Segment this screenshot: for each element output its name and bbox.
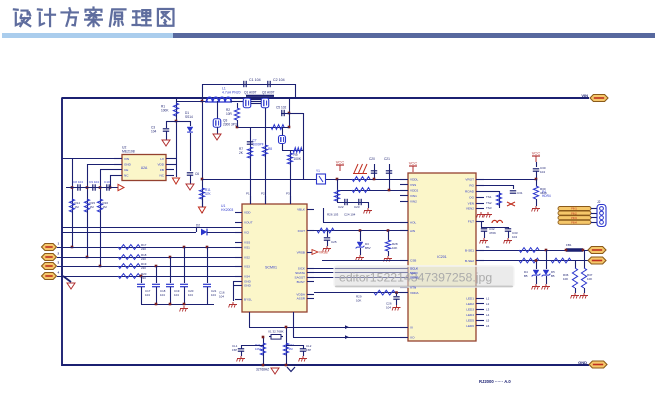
resistor R23 on bus xyxy=(352,177,370,182)
capacitor CL2 xyxy=(300,348,306,350)
svg-text:1M: 1M xyxy=(75,205,80,209)
svg-text:R37: R37 xyxy=(587,273,593,277)
svg-text:C18: C18 xyxy=(160,289,166,293)
wire CL1 link xyxy=(241,345,263,347)
svg-text:D1: D1 xyxy=(185,111,189,115)
svg-text:R2: R2 xyxy=(226,108,230,112)
wire R2 to junction xyxy=(237,120,239,127)
svg-text:C5 102: C5 102 xyxy=(276,106,287,110)
svg-text:VSS: VSS xyxy=(410,183,416,187)
svg-text:100K: 100K xyxy=(294,157,302,161)
wire capbank stem x156 xyxy=(156,287,158,304)
svg-text:104: 104 xyxy=(386,306,391,310)
labels right of U3 LED pins xyxy=(486,296,490,300)
svg-text:SDATA: SDATA xyxy=(295,271,306,275)
wire capbank drop x156 xyxy=(156,266,158,283)
resistor R22 xyxy=(283,343,288,355)
svg-text:LED3: LED3 xyxy=(466,307,474,311)
svg-text:4.7uH PN20: 4.7uH PN20 xyxy=(222,91,241,95)
wire x202 tail xyxy=(202,199,204,207)
svg-text:VBLK: VBLK xyxy=(297,207,306,211)
red hatch marker xyxy=(354,164,358,173)
label Q1 xyxy=(244,90,257,94)
wire zener drop 546 xyxy=(546,250,548,269)
svg-text:C20: C20 xyxy=(369,157,375,161)
svg-text:470K: 470K xyxy=(489,231,496,235)
svg-text:10M: 10M xyxy=(255,347,261,351)
svg-text:R9: R9 xyxy=(294,153,298,157)
wire FILT stub xyxy=(481,221,483,227)
ground below C3 xyxy=(162,140,170,146)
svg-text:104: 104 xyxy=(219,295,224,299)
svg-text:R26 103: R26 103 xyxy=(327,213,339,217)
svg-text:U1: U1 xyxy=(221,204,225,208)
port arrow right of cap row xyxy=(118,184,124,190)
svg-text:LED4: LED4 xyxy=(466,313,474,317)
ground below D5 xyxy=(545,284,547,287)
svg-text:32768HZ: 32768HZ xyxy=(256,368,269,372)
connector J1 pin2 xyxy=(42,254,57,261)
svg-text:R7: R7 xyxy=(239,147,243,151)
U2 center label xyxy=(141,166,148,170)
watermark box xyxy=(334,266,514,287)
svg-text:C21: C21 xyxy=(384,157,390,161)
wire switch-node down xyxy=(217,101,219,119)
svg-text:2300 3P3: 2300 3P3 xyxy=(223,123,237,127)
svg-text:104: 104 xyxy=(540,170,545,174)
resistor R18 row2 xyxy=(118,255,140,260)
svg-text:CL2: CL2 xyxy=(306,344,312,348)
svg-text:L5: L5 xyxy=(486,318,490,322)
svg-text:VSS: VSS xyxy=(244,240,250,244)
capacitor C25 xyxy=(324,237,330,239)
svg-text:R1: R1 xyxy=(161,105,165,109)
svg-text:C8 104: C8 104 xyxy=(73,180,83,184)
capacitor C32 xyxy=(481,228,487,230)
resistor R4 on y127 xyxy=(271,125,284,130)
svg-text:CE: CE xyxy=(124,168,128,172)
label U1 refdes xyxy=(221,204,225,208)
resistor R30 xyxy=(533,186,538,199)
svg-text:D4: D4 xyxy=(524,270,528,274)
resistor R1 xyxy=(173,103,178,116)
svg-text:FILT: FILT xyxy=(468,219,474,223)
connector P6 xyxy=(588,257,606,264)
wire zener tail xyxy=(360,248,362,255)
resistor R21 xyxy=(260,343,265,355)
svg-text:1M: 1M xyxy=(90,205,95,209)
svg-text:C30: C30 xyxy=(540,166,546,170)
wire C26 drop xyxy=(396,293,398,296)
svg-text:SENB: SENB xyxy=(410,275,418,279)
U3 pin labels over watermark xyxy=(410,266,419,270)
svg-text:C2 104: C2 104 xyxy=(273,78,285,82)
svg-text:LED5: LED5 xyxy=(466,318,474,322)
wire U1 xtal pin2 xyxy=(293,337,408,339)
capacitor C26 xyxy=(393,296,399,298)
node dots on rows xyxy=(71,246,74,249)
svg-text:HDR4: HDR4 xyxy=(542,194,551,198)
svg-text:R17: R17 xyxy=(141,243,147,247)
capacitor C30 xyxy=(533,168,539,170)
svg-text:C33: C33 xyxy=(512,231,518,235)
op-amp U2 body xyxy=(122,155,166,181)
resistor R24 on bus2 xyxy=(352,188,370,193)
resistor R16 on x100 xyxy=(97,199,102,212)
ground below C33 xyxy=(507,238,509,241)
resistor R36 xyxy=(572,268,577,288)
svg-text:VDDA: VDDA xyxy=(296,292,306,296)
svg-text:RG: RG xyxy=(469,183,474,187)
pin arrow xtal1 xyxy=(345,325,349,329)
svg-text:GND: GND xyxy=(578,360,587,365)
svg-text:B5V: B5V xyxy=(365,246,371,250)
wire x323 drop xyxy=(323,208,325,222)
capacitor C1 xyxy=(243,81,245,87)
wire C21 stub xyxy=(389,164,391,190)
svg-text:P3: P3 xyxy=(286,192,290,196)
svg-text:15P: 15P xyxy=(306,348,311,352)
ground pair under pins xyxy=(480,212,482,215)
node dot bse1 xyxy=(545,249,548,252)
wire caps row y202 xyxy=(337,202,368,204)
wire xtal drop1 xyxy=(263,337,265,365)
svg-text:R36: R36 xyxy=(563,273,569,277)
wire serial link0 xyxy=(322,260,408,262)
svg-text:B-SE1: B-SE1 xyxy=(465,248,474,252)
wire border to VOUT xyxy=(62,227,242,229)
connector P4 pills xyxy=(558,207,591,211)
connector P2 top-right xyxy=(590,95,608,102)
ground x368 xyxy=(367,208,369,211)
svg-text:VIN2: VIN2 xyxy=(410,199,417,203)
svg-text:ME2108: ME2108 xyxy=(122,150,135,154)
node rail dots xyxy=(155,303,158,306)
wire C33 stub xyxy=(508,227,510,229)
svg-text:ROAD: ROAD xyxy=(465,189,475,193)
wire capbank drop x184 xyxy=(184,247,186,283)
ground below R28 xyxy=(387,256,389,259)
label Q2 xyxy=(262,90,275,94)
svg-text:LED1: LED1 xyxy=(466,296,474,300)
svg-text:B5: B5 xyxy=(551,274,555,278)
svg-text:LED2: LED2 xyxy=(466,302,474,306)
svg-text:100K: 100K xyxy=(161,109,169,113)
power flag VCC mid xyxy=(339,165,341,171)
resistor R19 row3 xyxy=(118,264,140,269)
svg-text:C10: C10 xyxy=(104,180,110,184)
resistor R35 xyxy=(551,258,571,263)
svg-text:L4: L4 xyxy=(486,313,490,317)
wire cap CL2 stub xyxy=(303,345,305,349)
wire row3 xyxy=(57,266,242,268)
U3 center label xyxy=(437,255,447,259)
svg-text:P4: P4 xyxy=(542,190,546,194)
wire border stub xyxy=(196,228,198,233)
wire U2 VDD right xyxy=(174,164,176,166)
svg-text:SICK: SICK xyxy=(298,266,306,270)
wire conn4 ground tail xyxy=(63,276,71,282)
svg-text:NC: NC xyxy=(160,173,165,177)
svg-text:VS3: VS3 xyxy=(244,264,250,268)
node junction x176 y121 xyxy=(175,120,178,123)
wire R30 tail xyxy=(536,199,538,206)
ground below CL1 xyxy=(240,356,242,359)
label U2 refdes xyxy=(122,146,126,150)
wire R37 drop xyxy=(584,250,586,268)
capacitor C20 xyxy=(371,170,377,172)
transistor Q1 xyxy=(243,98,251,108)
svg-text:U2A: U2A xyxy=(141,166,148,170)
svg-text:R14: R14 xyxy=(75,201,81,205)
resistor R10 h xyxy=(293,148,302,153)
connector P5 xyxy=(588,247,606,254)
svg-text:R29: R29 xyxy=(356,295,362,299)
svg-text:104: 104 xyxy=(151,130,157,134)
ferrite bead FB1 xyxy=(566,248,583,251)
ground for U1 GND pins xyxy=(233,281,235,283)
wire RG down xyxy=(513,185,515,189)
wire chain x265 xyxy=(265,108,267,204)
wire inductor to switch node xyxy=(230,101,243,103)
ground below C32 xyxy=(483,238,485,241)
port marker VRSB xyxy=(312,250,318,255)
wire VROT to chain xyxy=(484,179,536,181)
wire between Q1 Q2 xyxy=(251,99,261,101)
port arrow below U2 xyxy=(172,178,179,184)
svg-text:FB1: FB1 xyxy=(566,243,572,247)
svg-text:C21: C21 xyxy=(211,289,217,293)
svg-text:NC: NC xyxy=(124,173,129,177)
wire BSE2 row xyxy=(484,260,588,262)
resistor R17 row1 xyxy=(118,245,140,250)
ground below J1 xyxy=(67,283,75,289)
svg-text:47K: 47K xyxy=(205,192,212,196)
node VIN label at top-right xyxy=(581,93,588,98)
svg-text:104: 104 xyxy=(160,293,165,297)
svg-text:U2: U2 xyxy=(122,146,126,150)
wire C20 stub xyxy=(374,164,376,179)
svg-text:B-SE2: B-SE2 xyxy=(465,259,474,263)
capacitor C7 on x250 xyxy=(247,141,253,143)
svg-text:VCC: VCC xyxy=(336,160,345,165)
wire ROAD right xyxy=(484,191,499,193)
svg-text:C26: C26 xyxy=(386,302,392,306)
svg-text:VRSB: VRSB xyxy=(297,250,305,254)
svg-text:R8: R8 xyxy=(268,147,272,151)
resistor R27 xyxy=(317,228,334,233)
svg-text:220: 220 xyxy=(141,257,146,261)
wire drop x110 xyxy=(110,175,112,188)
wire drain bar xyxy=(246,95,274,97)
transistor Q3 xyxy=(213,119,221,128)
svg-text:BYSL: BYSL xyxy=(244,297,252,301)
wire VDDA link xyxy=(314,292,408,294)
wire U2 pin2 left xyxy=(87,164,114,166)
svg-text:VS1: VS1 xyxy=(244,245,250,249)
svg-text:X1 32.768K: X1 32.768K xyxy=(268,330,284,334)
ground below C6 xyxy=(186,184,194,190)
wire C3 stub xyxy=(166,121,168,128)
crystal X1 xyxy=(271,335,281,340)
node junction x289 y113 xyxy=(288,112,291,115)
wire y202 tail xyxy=(368,202,370,208)
wire capbank drop x207 xyxy=(207,247,209,283)
resistor R7 on x250 xyxy=(247,147,252,158)
label blue right top xyxy=(542,190,546,194)
diode D1 xyxy=(187,127,193,132)
capacitor C5 snubber xyxy=(281,110,283,116)
svg-text:P2: P2 xyxy=(261,192,265,196)
wire FILT row xyxy=(481,227,508,229)
connector J1 pin3 xyxy=(42,263,57,270)
svg-text:VDDL: VDDL xyxy=(410,177,419,181)
svg-text:IOUT: IOUT xyxy=(298,229,306,233)
svg-text:R28: R28 xyxy=(392,242,398,246)
svg-text:VDD: VDD xyxy=(157,162,164,166)
svg-text:C23: C23 xyxy=(354,205,360,209)
node dots on bus xyxy=(373,178,376,181)
wire U2 pin3 left xyxy=(100,169,114,171)
wire R28 tail xyxy=(388,251,390,256)
wire U1 IOUT to U3 xyxy=(307,230,408,232)
wire capbank rail xyxy=(141,304,214,306)
wire capbank stem x170 xyxy=(170,287,172,304)
wire Q1 source drop xyxy=(237,103,239,108)
caption bottom xyxy=(479,379,511,384)
wire left vertical of boost cell xyxy=(202,84,204,213)
svg-text:L1: L1 xyxy=(222,87,226,91)
label Q3 xyxy=(223,119,227,123)
label R29 xyxy=(356,295,362,299)
svg-text:C31: C31 xyxy=(517,191,523,195)
label C20 C21 xyxy=(369,157,375,161)
svg-text:1000PF: 1000PF xyxy=(253,143,264,147)
svg-text:R15: R15 xyxy=(90,201,96,205)
page title 设计方案原理图 (drawn strokes) xyxy=(14,8,174,27)
label BSE1 xyxy=(486,245,490,249)
wire D2 to U1 xyxy=(207,232,242,234)
wire CL1 down xyxy=(241,352,243,357)
wire SICK link xyxy=(314,268,408,270)
connector J1 pin4 xyxy=(42,273,57,280)
svg-text:XO: XO xyxy=(410,335,415,339)
wire chain x536 down xyxy=(536,179,538,186)
svg-text:SAGST: SAGST xyxy=(295,275,306,279)
svg-text:TS1: TS1 xyxy=(486,195,492,199)
svg-text:VS2: VS2 xyxy=(244,255,250,259)
svg-text:HX2003: HX2003 xyxy=(221,208,233,212)
svg-text:10K: 10K xyxy=(392,246,397,250)
svg-text:VRSB: VRSB xyxy=(319,251,328,255)
capacitor C6 xyxy=(187,172,193,174)
wire inductor row xyxy=(176,101,208,103)
resistor R11 below arrowport xyxy=(199,188,204,199)
node junction x237 y127 xyxy=(236,126,239,129)
resistor R25 xyxy=(334,190,339,201)
wire link x282-x303 xyxy=(282,150,303,152)
svg-text:Q2 A09T: Q2 A09T xyxy=(262,90,275,94)
wire chain x303 xyxy=(303,113,305,179)
capacitor C31 xyxy=(510,190,516,192)
svg-text:C7: C7 xyxy=(253,139,257,143)
svg-text:J2: J2 xyxy=(597,200,601,204)
wire capbank drop x141 xyxy=(141,276,143,283)
zener D4 xyxy=(533,270,539,275)
wire C25 stub xyxy=(327,231,329,238)
capacitor C9 xyxy=(92,184,94,190)
ground below cap bank xyxy=(183,306,185,309)
wire outer top rail VIN net xyxy=(62,97,589,99)
wire zener drop xyxy=(360,231,362,242)
svg-text:SS14: SS14 xyxy=(185,115,193,119)
wire VCC to C30 xyxy=(536,162,538,167)
svg-text:P1: P1 xyxy=(246,192,250,196)
resistor R33 xyxy=(519,248,539,253)
svg-text:R11: R11 xyxy=(205,188,211,192)
label under rail xyxy=(256,368,269,372)
svg-text:C17: C17 xyxy=(145,289,151,293)
svg-text:10K: 10K xyxy=(587,277,592,281)
labels right of U3 pins xyxy=(486,195,492,199)
node dots on cap row xyxy=(71,186,74,189)
capacitor C10 xyxy=(106,184,108,190)
wire row4 xyxy=(57,276,242,278)
wire snubber row y113 xyxy=(281,113,289,115)
capacitor CL1 xyxy=(238,348,244,350)
wire U1 xtal pin1 xyxy=(249,327,408,329)
resistor R8 on x265 xyxy=(262,145,267,156)
svg-text:D3: D3 xyxy=(365,242,369,246)
svg-text:VDD2: VDD2 xyxy=(410,188,419,192)
wire row2 xyxy=(57,257,242,259)
svg-text:OG: OG xyxy=(469,195,474,199)
svg-text:AIN: AIN xyxy=(410,229,415,233)
resistor R34 xyxy=(519,258,539,263)
labels above IOUT row xyxy=(327,213,339,217)
ground below D4 xyxy=(535,284,537,287)
svg-text:CSB: CSB xyxy=(410,258,416,262)
wire branch to D1 xyxy=(176,121,190,123)
connector J2 block xyxy=(597,205,606,227)
svg-text:XI: XI xyxy=(410,325,413,329)
svg-text:B1: B1 xyxy=(486,245,490,249)
wire CL2 down xyxy=(303,352,305,357)
wire IOUT link xyxy=(323,222,408,224)
ground below R37 xyxy=(583,293,585,296)
node xtal dots xyxy=(262,336,265,339)
ground below R36 xyxy=(574,293,576,296)
U1 pins xyxy=(250,196,252,204)
wire RG right xyxy=(484,185,513,187)
node dot x536 xyxy=(535,178,538,181)
wire capbank stem x207 xyxy=(207,287,209,304)
svg-text:VTN: VTN xyxy=(410,285,416,289)
capacitor C21 xyxy=(386,170,392,172)
svg-text:1M: 1M xyxy=(103,205,108,209)
svg-text:VIN1: VIN1 xyxy=(410,194,417,198)
svg-text:D5: D5 xyxy=(551,270,555,274)
wire C33 tail xyxy=(508,232,510,239)
wire node to x289 xyxy=(289,98,291,127)
wire U2 LX right xyxy=(174,158,176,160)
svg-text:SCLK: SCLK xyxy=(410,266,419,270)
capacitor C3 xyxy=(163,128,169,130)
ground below C26 xyxy=(396,305,398,308)
pin arrow xtal2 xyxy=(345,335,349,339)
node junction top-left xyxy=(201,100,204,103)
svg-text:L3: L3 xyxy=(486,307,490,311)
